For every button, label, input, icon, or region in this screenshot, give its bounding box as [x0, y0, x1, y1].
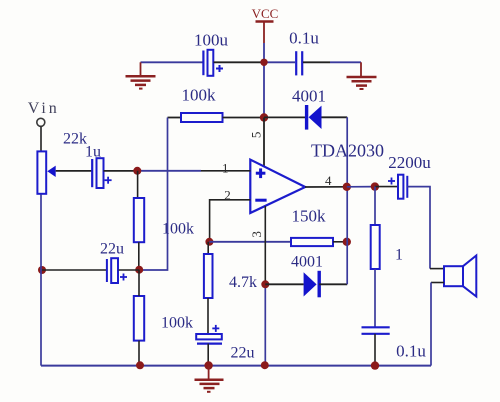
resistor 100k (divider upper) — [134, 171, 144, 270]
svg-text:1: 1 — [222, 160, 229, 175]
capacitor 22u (divider bypass) — [42, 258, 139, 283]
junction pin3 / diode anode — [261, 280, 269, 288]
junction output node — [343, 183, 351, 191]
capacitor 22u (gain series) — [196, 325, 222, 366]
svg-text:4001: 4001 — [292, 87, 326, 106]
svg-text:22u: 22u — [231, 345, 255, 362]
svg-text:22k: 22k — [63, 131, 87, 148]
wire output node to zobel tap — [347, 186, 375, 188]
diode 4001 (output to VCC) — [264, 105, 347, 130]
ground (top left) — [126, 62, 156, 88]
capacitor 100u — [203, 50, 223, 76]
svg-text:100k: 100k — [182, 86, 217, 105]
svg-text:4001: 4001 — [291, 254, 323, 271]
svg-text:22u: 22u — [100, 241, 124, 258]
wire pin 2 — [210, 200, 251, 242]
junction 22u / rail — [204, 361, 212, 369]
junction pin1 / divider — [133, 167, 141, 175]
svg-text:1: 1 — [395, 247, 403, 264]
svg-text:0.1u: 0.1u — [396, 342, 426, 361]
wire 0.1u to top right ground — [303, 61, 361, 63]
capacitor 0.1u supply bypass — [296, 51, 302, 75]
svg-text:150k: 150k — [292, 207, 327, 226]
wire bias column x167 — [139, 118, 167, 271]
wire inverting node to 150k — [209, 241, 291, 243]
svg-text:100u: 100u — [194, 31, 229, 50]
wire zobel tap to 2200u — [375, 186, 398, 188]
wire VCC node down to pin5 node — [263, 62, 265, 117]
wire 100u to VCC node — [214, 61, 265, 63]
resistor 1 ohm (zobel) — [371, 187, 380, 328]
junction divider midpoint — [135, 266, 143, 274]
wire pin 3 — [264, 206, 266, 366]
wire output column x347 — [346, 117, 348, 284]
svg-text:5: 5 — [249, 132, 264, 139]
svg-text:VCC: VCC — [252, 6, 279, 21]
junction pin3 / rail — [261, 361, 269, 369]
net label VCC — [252, 6, 279, 22]
wire pot wiper to 1u — [56, 170, 92, 172]
wire Vin to potentiometer — [40, 127, 42, 152]
wire speaker top stub — [430, 268, 444, 270]
wire top rail left to 100u — [141, 61, 204, 63]
svg-text:4: 4 — [325, 173, 332, 188]
junction zobel / rail — [371, 361, 379, 369]
op-amp TDA2030 — [250, 160, 305, 213]
wire 1u to op-amp pin 1 — [104, 170, 251, 172]
capacitor 0.1u (zobel) — [362, 327, 390, 365]
svg-text:Vin: Vin — [28, 100, 60, 117]
svg-text:2: 2 — [224, 187, 231, 202]
capacitor 1u (input coupling) — [92, 158, 111, 188]
wire ground rail — [41, 365, 431, 367]
wire VCC stem — [263, 22, 265, 63]
junction feedback / output column — [343, 238, 351, 246]
wire op-amp output pin 4 — [305, 186, 347, 188]
junction inverting node — [205, 238, 213, 246]
svg-text:2200u: 2200u — [388, 153, 431, 172]
wire speaker return — [430, 283, 432, 366]
svg-text:100k: 100k — [161, 315, 193, 332]
junction VCC decoupling node — [260, 59, 267, 66]
potentiometer 22k — [37, 151, 55, 193]
junction pot return — [38, 266, 46, 274]
wire pot bottom rail left — [40, 195, 42, 366]
ground (top right) — [347, 62, 377, 89]
junction VCC pin5 node — [260, 113, 268, 121]
svg-text:100k: 100k — [162, 221, 194, 238]
wire 2200u to speaker — [407, 187, 430, 269]
wire speaker bottom stub — [431, 282, 444, 284]
diode 4001 (ground to output) — [265, 271, 347, 298]
speaker — [444, 256, 476, 297]
junction zobel tap — [371, 182, 379, 190]
junction divider / rail — [136, 361, 144, 369]
resistor 150k (feedback) — [291, 238, 347, 246]
ground (bottom) — [195, 366, 224, 392]
svg-text:0.1u: 0.1u — [289, 29, 319, 48]
wire pin 5 stub — [263, 118, 265, 167]
wire VCC node to 0.1u — [264, 61, 295, 63]
terminal Vin — [28, 100, 60, 126]
capacitor 2200u (output coupling) — [388, 175, 407, 199]
resistor 100k (divider lower) — [134, 270, 144, 366]
svg-text:4.7k: 4.7k — [229, 274, 257, 291]
resistor 4.7k (gain set) — [204, 242, 213, 334]
resistor 100k (bias feed, horizontal) — [168, 113, 265, 122]
svg-text:3: 3 — [249, 231, 264, 238]
